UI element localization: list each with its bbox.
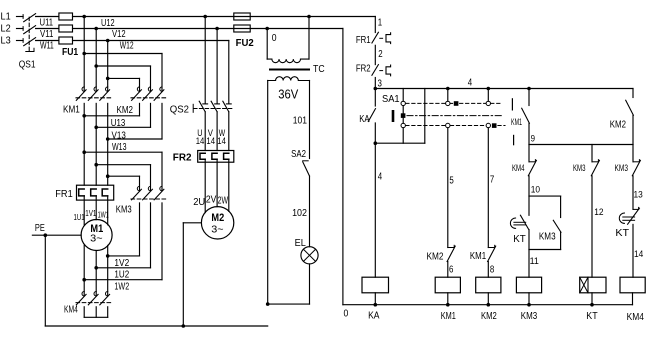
svg-text:KA: KA: [359, 114, 370, 125]
svg-text:2V: 2V: [206, 194, 217, 205]
svg-text:1U2: 1U2: [114, 270, 129, 281]
svg-text:KA: KA: [368, 310, 380, 321]
svg-text:2: 2: [378, 49, 383, 60]
svg-text:3~: 3~: [90, 234, 103, 245]
svg-text:14: 14: [217, 136, 226, 146]
svg-text:L3: L3: [1, 35, 11, 47]
svg-text:0: 0: [272, 33, 277, 44]
svg-text:FR2: FR2: [173, 151, 192, 163]
svg-text:102: 102: [292, 208, 307, 219]
svg-text:KM4: KM4: [512, 163, 525, 173]
svg-text:11: 11: [530, 256, 539, 267]
svg-text:PE: PE: [35, 223, 45, 234]
svg-text:W12: W12: [120, 41, 134, 52]
svg-text:12: 12: [594, 207, 603, 218]
svg-text:U11: U11: [40, 18, 54, 29]
svg-text:36V: 36V: [278, 87, 299, 101]
svg-text:FR1: FR1: [356, 35, 371, 46]
svg-text:4: 4: [468, 77, 473, 88]
svg-text:1: 1: [378, 17, 383, 28]
svg-text:1U1: 1U1: [74, 212, 85, 222]
svg-text:FR2: FR2: [356, 64, 371, 75]
svg-text:6: 6: [449, 265, 454, 276]
svg-text:9: 9: [531, 133, 535, 144]
svg-text:8: 8: [490, 265, 495, 276]
svg-text:L1: L1: [1, 11, 11, 23]
svg-text:KM3: KM3: [521, 311, 538, 322]
svg-text:QS2: QS2: [170, 103, 189, 115]
svg-text:KM1: KM1: [511, 117, 522, 127]
svg-text:KM4: KM4: [64, 305, 78, 316]
svg-text:KM3: KM3: [615, 163, 629, 173]
svg-text:FU2: FU2: [236, 37, 254, 49]
svg-text:KM1: KM1: [470, 251, 487, 262]
svg-text:2W: 2W: [218, 196, 229, 207]
svg-text:14: 14: [634, 249, 643, 260]
svg-text:14: 14: [196, 136, 205, 146]
svg-text:V11: V11: [40, 29, 54, 40]
svg-text:W13: W13: [112, 142, 127, 153]
svg-text:KM1: KM1: [441, 311, 456, 322]
svg-text:KM1: KM1: [63, 104, 80, 115]
svg-text:SA1: SA1: [382, 94, 400, 105]
svg-text:KM2: KM2: [427, 251, 444, 262]
svg-text:FU1: FU1: [62, 46, 78, 58]
svg-text:10: 10: [531, 184, 540, 195]
svg-text:14: 14: [206, 136, 215, 146]
svg-text:2U: 2U: [193, 197, 205, 208]
svg-text:V13: V13: [112, 131, 127, 142]
svg-text:0: 0: [344, 309, 349, 320]
svg-text:SA2: SA2: [291, 149, 306, 160]
svg-text:U12: U12: [101, 18, 115, 29]
svg-text:4: 4: [378, 172, 383, 183]
svg-text:1W2: 1W2: [114, 282, 129, 293]
svg-text:KM3: KM3: [116, 205, 132, 216]
svg-text:7: 7: [490, 175, 495, 186]
svg-text:EL: EL: [295, 238, 307, 249]
svg-text:KM2: KM2: [610, 119, 627, 130]
svg-text:L2: L2: [1, 23, 11, 35]
svg-text:V12: V12: [112, 29, 126, 40]
svg-text:1W1: 1W1: [98, 209, 109, 219]
svg-text:QS1: QS1: [19, 59, 36, 71]
svg-text:KT: KT: [615, 228, 629, 239]
svg-text:KM2: KM2: [117, 105, 134, 116]
svg-text:M2: M2: [211, 212, 224, 224]
svg-text:KM3: KM3: [539, 232, 556, 243]
svg-text:101: 101: [293, 116, 308, 127]
svg-text:5: 5: [449, 176, 454, 187]
svg-text:13: 13: [634, 189, 643, 200]
svg-text:KM3: KM3: [573, 163, 586, 173]
svg-text:3~: 3~: [211, 225, 223, 236]
svg-text:TC: TC: [313, 63, 325, 75]
svg-text:KT: KT: [513, 234, 526, 245]
svg-text:KM2: KM2: [481, 311, 497, 322]
svg-text:1V1: 1V1: [85, 208, 96, 218]
svg-text:KM4: KM4: [627, 312, 645, 323]
svg-text:1V2: 1V2: [114, 258, 129, 269]
svg-text:KT: KT: [586, 311, 597, 322]
svg-text:3: 3: [378, 79, 383, 90]
svg-text:U13: U13: [111, 118, 126, 129]
svg-text:W11: W11: [40, 41, 54, 52]
svg-text:FR1: FR1: [55, 189, 73, 200]
